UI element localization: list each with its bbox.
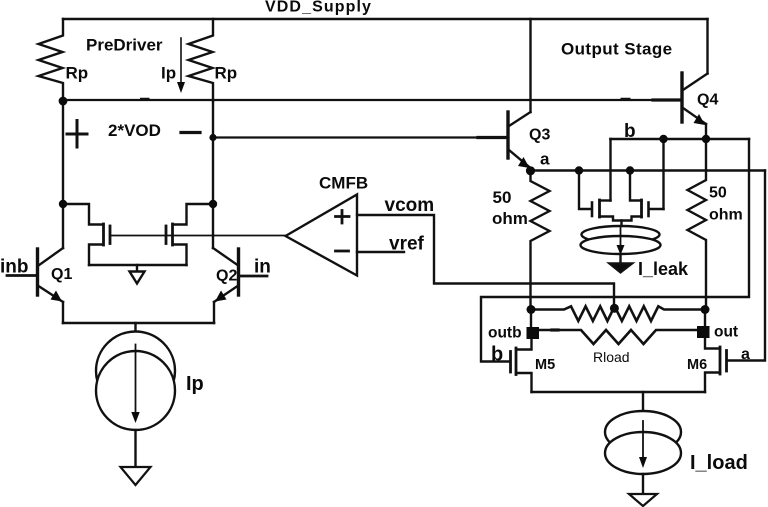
wire a to M6 gate: [728, 171, 766, 361]
svg-text:I_load: I_load: [690, 452, 748, 474]
svg-text:Q2: Q2: [216, 268, 237, 285]
wire Q3 base: [213, 136, 507, 138]
junction dot Rload center tap: [610, 304, 619, 313]
svg-text:Q1: Q1: [51, 266, 72, 283]
svg-text:Q3: Q3: [529, 127, 550, 144]
transistor M6: [725, 351, 728, 372]
junction dot Rload left: [527, 305, 536, 314]
svg-text:out: out: [714, 324, 738, 341]
pad outb: [527, 327, 540, 339]
wire tail stem: [134, 323, 136, 336]
wire I_leak stem: [620, 221, 622, 228]
ground (mirror): [136, 265, 138, 272]
wire vcom: [357, 215, 614, 308]
svg-text:M6: M6: [687, 357, 707, 373]
wire left branch down: [62, 101, 64, 248]
svg-text:I_leak: I_leak: [638, 259, 689, 279]
nmos mirror left (diff pair load): [63, 204, 103, 225]
junction dot varactor a right: [626, 166, 634, 174]
pad out: [697, 326, 710, 338]
svg-text:outb: outb: [488, 325, 522, 342]
wire tail rail: [63, 322, 214, 325]
wire Q3 base thick lead: [478, 136, 506, 139]
junction dot node b Q4: [702, 135, 710, 143]
svg-text:Rload: Rload: [593, 349, 630, 365]
wire M5 M6 source rail: [532, 391, 706, 393]
wire b left drop to varactor: [609, 139, 611, 201]
arrowhead Q3 emitter: [518, 157, 530, 168]
transistor Q2: [237, 249, 240, 295]
resistor Rp (right): [189, 19, 214, 101]
svg-text:VDD_Supply: VDD_Supply: [265, 0, 372, 16]
wire b to M5 gate: [481, 139, 749, 362]
svg-text:ohm: ohm: [709, 207, 743, 224]
wire gate line to CMFB: [110, 235, 286, 237]
minus sign 2*VOD: [181, 131, 200, 134]
wire out drop: [704, 310, 706, 327]
svg-text:vref: vref: [389, 234, 425, 255]
junction dot mirror right: [209, 200, 217, 208]
svg-text:in: in: [254, 257, 271, 278]
wire node b rail: [611, 138, 750, 141]
transistor Q1: [36, 249, 39, 295]
current arrow Ip (predriver): [180, 38, 182, 84]
resistor Rp (left): [39, 19, 64, 101]
svg-text:Ip: Ip: [186, 373, 204, 395]
wire b to right varactor gate: [662, 139, 664, 209]
transistor M5: [509, 352, 512, 373]
wire Q4 base thick lead: [653, 98, 680, 101]
current source Ip: [96, 332, 175, 411]
junction dot Rload right: [701, 305, 710, 314]
plus sign 2*VOD: [67, 121, 87, 148]
junction dot mirror left: [59, 200, 67, 208]
wire outb drop: [530, 310, 532, 328]
tick on outb wire: [552, 328, 558, 331]
arrowhead Q2 emitter: [215, 291, 227, 302]
svg-text:2*VOD: 2*VOD: [108, 121, 161, 140]
junction dot varactor a left: [575, 166, 583, 174]
svg-text:Rp: Rp: [66, 64, 89, 83]
transistor Q4: [706, 19, 708, 74]
arrowhead Q1 emitter: [51, 291, 63, 302]
arrowhead I_leak: [617, 245, 625, 255]
arrowhead I_load: [639, 457, 647, 468]
ground (Ip): [121, 467, 151, 485]
nmos mirror right: [174, 204, 214, 225]
wire source bus: [89, 264, 187, 266]
resistor 50 ohm (left): [531, 171, 550, 310]
svg-text:ohm: ohm: [492, 209, 528, 228]
svg-text:inb: inb: [0, 257, 29, 278]
varactor left (gate to a, channel to b): [579, 171, 591, 210]
resistor Rload upper with center tap: [531, 306, 705, 321]
svg-text:a: a: [741, 346, 750, 363]
svg-text:Q4: Q4: [697, 92, 718, 109]
op-amp CMFB: [286, 195, 358, 276]
current source I_load: [605, 411, 681, 453]
arrowhead Ip source: [131, 412, 139, 423]
svg-text:Output Stage: Output Stage: [561, 40, 673, 59]
svg-text:M5: M5: [535, 357, 555, 373]
arrowhead Ip predriver: [177, 82, 185, 93]
svg-text:b: b: [491, 344, 503, 366]
ground (I_leak): [610, 264, 633, 273]
svg-text:PreDriver: PreDriver: [86, 36, 163, 55]
junction dot Rp left bottom: [59, 97, 68, 106]
svg-text:a: a: [540, 150, 550, 169]
transistor Q3: [529, 19, 531, 112]
wire vref: [357, 251, 404, 253]
svg-text:50: 50: [493, 188, 512, 207]
svg-text:vcom: vcom: [385, 195, 435, 216]
wire varactor bottoms bus: [600, 217, 642, 221]
wire node a horizontal: [531, 169, 766, 171]
junction dot Q3 base start: [209, 134, 216, 141]
wire 2*VOD node to Q4 base: [63, 99, 681, 101]
junction dot node b varactor: [659, 135, 667, 143]
wire VDD top rail: [63, 18, 708, 20]
wire right branch down: [212, 101, 214, 248]
wire I_load stem: [642, 392, 644, 412]
tick on VOD wire: [142, 98, 630, 101]
arrowhead Q4 emitter: [694, 114, 706, 125]
svg-text:CMFB: CMFB: [319, 174, 368, 193]
svg-text:Rp: Rp: [215, 64, 238, 83]
current source I_leak: [582, 226, 660, 243]
varactor right (channel to a, gate to b): [650, 208, 664, 210]
svg-text:50: 50: [709, 185, 727, 202]
svg-text:b: b: [624, 121, 636, 142]
svg-text:Ip: Ip: [161, 64, 176, 83]
ground (I_load): [629, 494, 657, 506]
resistor Rload lower: [540, 330, 698, 344]
junction dot node a: [526, 166, 535, 175]
resistor 50 ohm (right): [688, 139, 707, 309]
